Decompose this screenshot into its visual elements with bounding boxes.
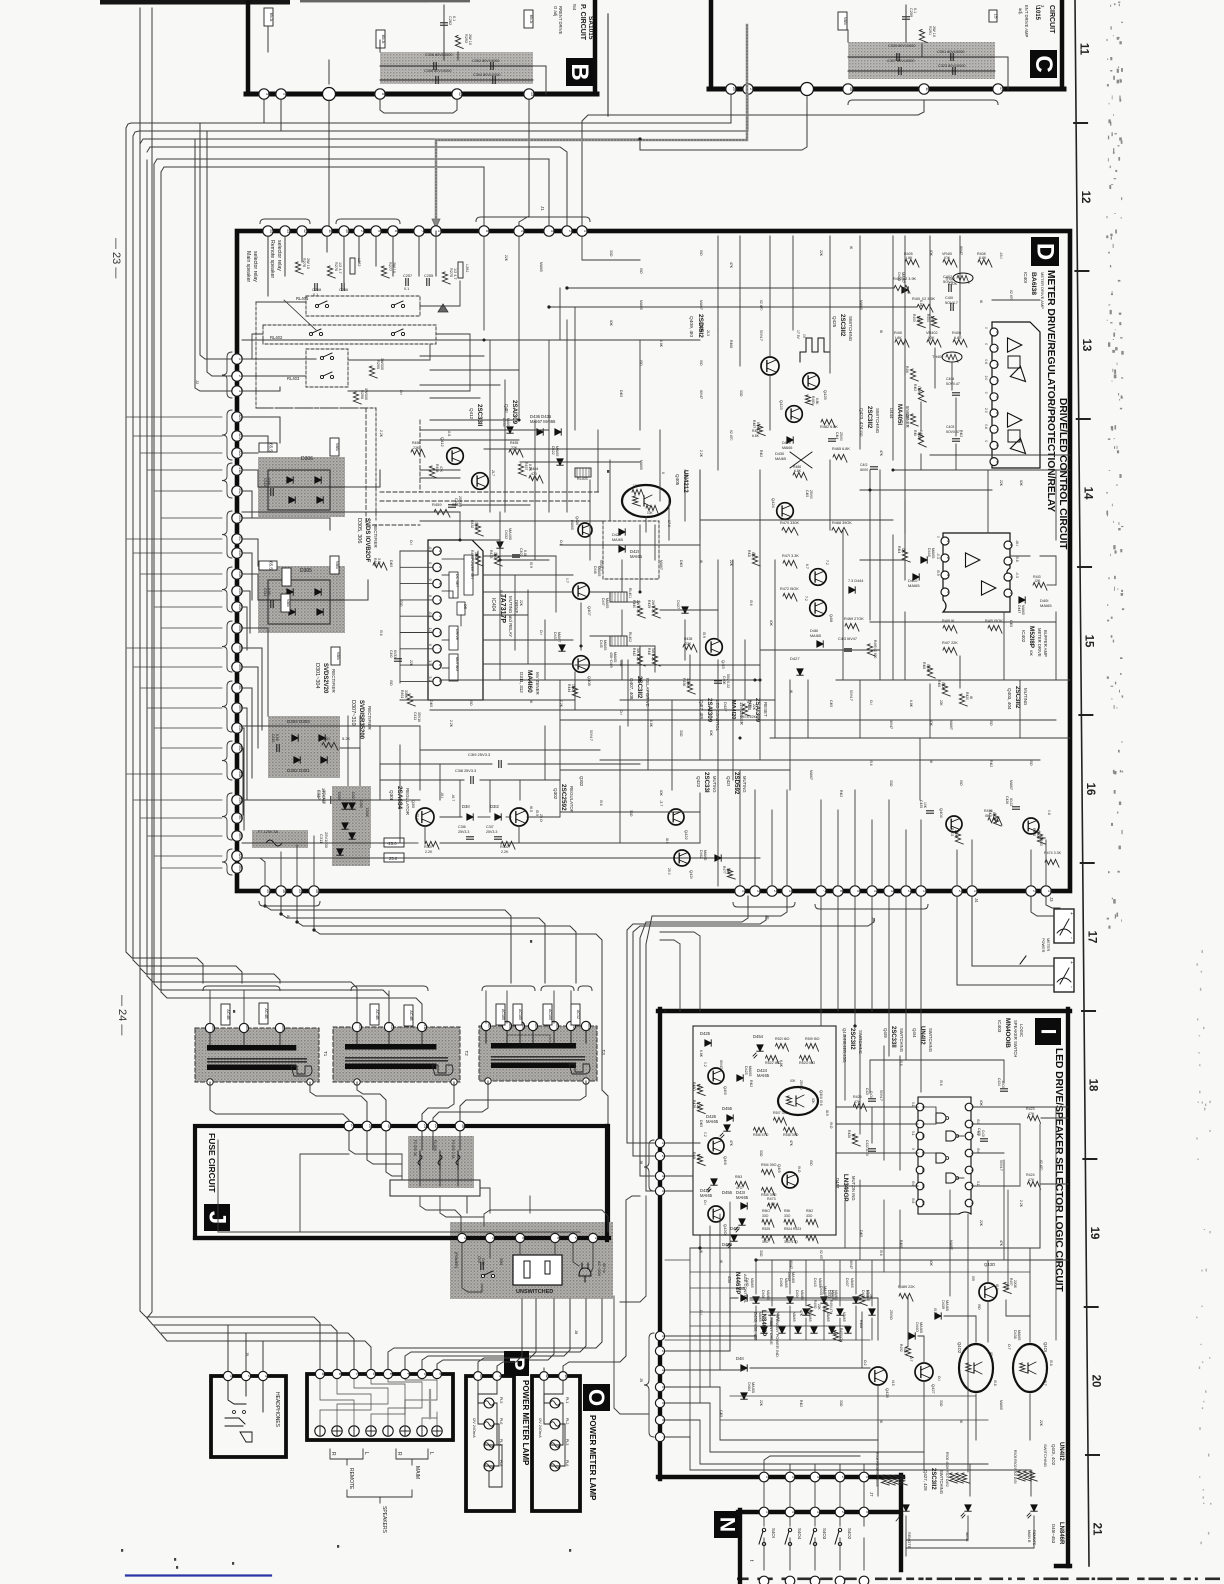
svg-text:I5.9: I5.9 bbox=[535, 810, 539, 816]
svg-text:33O: 33O bbox=[839, 1400, 843, 1407]
svg-text:D4I5: D4I5 bbox=[429, 700, 433, 707]
svg-text:MAI65: MAI65 bbox=[639, 460, 643, 470]
svg-text:316: 316 bbox=[238, 604, 242, 610]
svg-text:25.0: 25.0 bbox=[667, 868, 671, 875]
svg-text:2: 2 bbox=[841, 1476, 845, 1478]
svg-text:MAI65: MAI65 bbox=[757, 1073, 770, 1078]
svg-text:65.5: 65.5 bbox=[269, 443, 274, 452]
svg-text:C425: C425 bbox=[919, 800, 923, 808]
wires AC boxes to pins bbox=[209, 991, 211, 1023]
svg-text:1.0: 1.0 bbox=[428, 628, 432, 633]
svg-text:C404: C404 bbox=[946, 377, 954, 381]
svg-text:R295: R295 bbox=[376, 360, 380, 369]
svg-text:LN846R: LN846R bbox=[1058, 1522, 1064, 1545]
svg-text:33O: 33O bbox=[762, 1214, 769, 1218]
svg-text:L: L bbox=[428, 1452, 434, 1455]
svg-text:1: 1 bbox=[437, 230, 441, 232]
resistor R401 3.5K bbox=[917, 304, 933, 312]
bracket remote bbox=[330, 1449, 363, 1459]
svg-text:16: 16 bbox=[1084, 783, 1096, 796]
svg-text:R5IO: R5IO bbox=[762, 1209, 770, 1213]
svg-text:2W 10: 2W 10 bbox=[932, 26, 936, 37]
svg-text:7: 7 bbox=[822, 890, 826, 892]
svg-text:I9.O: I9.O bbox=[829, 1122, 833, 1129]
wires headphone pins up to bus bbox=[227, 1325, 229, 1371]
svg-text:IOK: IOK bbox=[1029, 650, 1033, 657]
svg-text:47K: 47K bbox=[879, 450, 883, 457]
svg-text:TH40I: TH40I bbox=[945, 277, 955, 281]
svg-text:I5.8: I5.8 bbox=[993, 1380, 997, 1386]
svg-text:14: 14 bbox=[921, 1201, 925, 1205]
resistor R481 47K bbox=[697, 1155, 705, 1166]
resistor R419 1K bbox=[943, 625, 957, 633]
fuse block label box J bbox=[204, 1204, 230, 1231]
svg-text:C282: C282 bbox=[448, 16, 452, 25]
svg-text:R4I6: R4I6 bbox=[937, 680, 941, 687]
svg-text:5: 5 bbox=[856, 890, 860, 892]
transistor Q424 bbox=[777, 503, 794, 520]
capacitor C423 0.01 bbox=[981, 1138, 988, 1140]
wire D pin to meter2 bbox=[957, 896, 1054, 985]
svg-text:0.68: 0.68 bbox=[275, 734, 279, 741]
wire B pin drop long bbox=[328, 100, 330, 228]
svg-text:Remote speaker: Remote speaker bbox=[269, 240, 275, 278]
svg-text:D304 D303: D304 D303 bbox=[287, 719, 310, 724]
svg-text:R404: R404 bbox=[926, 314, 930, 322]
svg-text:1/2 4.7: 1/2 4.7 bbox=[338, 262, 342, 274]
wires D bottomA to transformers bbox=[265, 896, 511, 963]
svg-text:13: 13 bbox=[530, 92, 534, 96]
svg-text:3: 3 bbox=[816, 1476, 820, 1478]
svg-text:317: 317 bbox=[238, 536, 242, 542]
svg-text:I8.9: I8.9 bbox=[825, 1110, 829, 1116]
svg-text:0.1: 0.1 bbox=[452, 16, 456, 21]
wire mesh D bottom-left verticals bbox=[379, 726, 381, 800]
svg-text:3: 3 bbox=[438, 583, 442, 585]
svg-text:T2: T2 bbox=[464, 1051, 469, 1057]
svg-text:R40I: R40I bbox=[912, 297, 920, 301]
svg-text:D4IO: D4IO bbox=[745, 1278, 749, 1287]
svg-text:1: 1 bbox=[661, 1142, 665, 1144]
svg-text:S4O2: S4O2 bbox=[847, 1528, 852, 1540]
svg-text:1: 1 bbox=[765, 1476, 769, 1478]
svg-text:47K: 47K bbox=[1028, 1112, 1035, 1116]
plug symbol bbox=[579, 1263, 591, 1282]
svg-text:I/2 470: I/2 470 bbox=[759, 300, 763, 310]
svg-text:I: I bbox=[1037, 1029, 1060, 1035]
svg-text:SWITCHING: SWITCHING bbox=[1043, 1444, 1048, 1467]
svg-text:1: 1 bbox=[438, 550, 442, 552]
svg-text:2: 2 bbox=[749, 88, 753, 90]
svg-text:REGULATOR: REGULATOR bbox=[569, 786, 574, 813]
diode D429 MA165 bbox=[787, 437, 793, 443]
svg-text:D46I: D46I bbox=[810, 629, 818, 633]
svg-text:D308: D308 bbox=[365, 808, 369, 817]
svg-text:I2K: I2K bbox=[901, 548, 905, 554]
svg-text:10: 10 bbox=[345, 229, 349, 233]
svg-text:D442: D442 bbox=[787, 1272, 791, 1281]
block D bottom pins group D bbox=[952, 886, 962, 896]
grey top center bar wider bbox=[300, 0, 470, 2]
svg-text:MUTING: MUTING bbox=[455, 657, 459, 671]
svg-text:25VI0: 25VI0 bbox=[839, 432, 843, 441]
svg-text:RL403: RL403 bbox=[287, 376, 300, 381]
fuses F1 F2 F3 bbox=[419, 1151, 421, 1169]
svg-text:2W 2.7K: 2W 2.7K bbox=[651, 600, 655, 614]
capacitor C401 50V4.7 bbox=[950, 304, 952, 311]
relay area dashed boundary bbox=[256, 302, 376, 408]
svg-text:D437: D437 bbox=[553, 632, 557, 641]
svg-text:21: 21 bbox=[1091, 1523, 1103, 1536]
svg-text:1: 1 bbox=[661, 1335, 665, 1337]
svg-text:!54: !54 bbox=[572, 4, 577, 11]
resistor R424 47K bbox=[1028, 1181, 1041, 1189]
LED D457 bbox=[739, 1219, 745, 1225]
svg-text:R426: R426 bbox=[847, 1130, 851, 1138]
svg-text:5: 5 bbox=[865, 1476, 869, 1478]
svg-text:IOOK: IOOK bbox=[992, 812, 996, 821]
svg-text:3.1: 3.1 bbox=[428, 676, 432, 681]
svg-text:I6V47: I6V47 bbox=[699, 390, 703, 399]
switch S404 bbox=[788, 1528, 791, 1531]
transformer T3 inner taps bbox=[485, 1031, 487, 1043]
svg-text:2: 2 bbox=[238, 375, 242, 377]
wires outlet area down bbox=[521, 1299, 523, 1310]
svg-text:Q428: Q428 bbox=[885, 1388, 890, 1399]
svg-text:D: D bbox=[372, 1373, 376, 1376]
svg-text:R472 I5OK: R472 I5OK bbox=[780, 587, 799, 591]
svg-text:O: O bbox=[584, 1389, 609, 1406]
svg-text:47K: 47K bbox=[729, 1140, 733, 1147]
svg-text:6.8K: 6.8K bbox=[979, 256, 987, 260]
wires transformer bottoms to fuse bbox=[210, 1082, 349, 1126]
IC402 opamps bbox=[966, 553, 980, 567]
svg-text:2: 2 bbox=[360, 230, 364, 232]
svg-text:MAI65: MAI65 bbox=[750, 1278, 754, 1288]
wires relay area mesh bbox=[242, 358, 316, 360]
wires right part mesh bbox=[893, 469, 1070, 471]
svg-text:R275: R275 bbox=[449, 268, 453, 277]
svg-text:R423: R423 bbox=[1026, 1107, 1035, 1111]
svg-text:I4.5: I4.5 bbox=[891, 1380, 895, 1386]
svg-text:POWER SET: POWER SET bbox=[470, 558, 474, 580]
svg-text:R4I2: R4I2 bbox=[913, 384, 917, 391]
svg-text:C258: C258 bbox=[312, 288, 321, 292]
svg-text:8: 8 bbox=[438, 664, 442, 666]
speaker terminals bbox=[315, 1426, 325, 1436]
pointer line relay label bbox=[284, 300, 316, 330]
svg-text:308: 308 bbox=[508, 1023, 512, 1029]
svg-text:0: 0 bbox=[984, 440, 988, 442]
svg-text:IOK: IOK bbox=[903, 1348, 907, 1354]
left bus long verticals bbox=[139, 8, 141, 1310]
svg-text:307: 307 bbox=[487, 1023, 491, 1029]
block N label bbox=[714, 1511, 740, 1538]
svg-text:R5O9 45O8 R5O7 D452: R5O9 45O8 R5O7 D452 bbox=[945, 1452, 949, 1487]
svg-text:306: 306 bbox=[238, 664, 242, 670]
svg-text:2: 2 bbox=[1032, 890, 1036, 892]
svg-text:4: 4 bbox=[520, 230, 524, 232]
svg-text:Q4I5,4I6,42O,43O,: Q4I5,4I6,42O,43O, bbox=[842, 1028, 847, 1063]
svg-text:304: 304 bbox=[534, 1023, 538, 1029]
fuse F7 halftone bbox=[252, 830, 308, 848]
svg-text:D457: D457 bbox=[730, 1226, 741, 1231]
bracket speakers bbox=[347, 1490, 412, 1497]
svg-text:IOK: IOK bbox=[811, 1098, 815, 1104]
resistor R413 12K bbox=[1033, 582, 1047, 590]
svg-text:8: 8 bbox=[381, 93, 385, 95]
svg-text:S4OI: S4OI bbox=[771, 1528, 776, 1538]
svg-text:O.2: O.2 bbox=[863, 1360, 867, 1366]
resistor R291 bbox=[919, 30, 927, 43]
svg-text:4: 4 bbox=[995, 380, 999, 382]
svg-text:2: 2 bbox=[958, 890, 962, 892]
svg-text:9: 9 bbox=[995, 461, 999, 463]
svg-text:R496: R496 bbox=[865, 1290, 869, 1298]
svg-text:I59: I59 bbox=[971, 1276, 975, 1281]
boxed label 65.5 at D301-304 bbox=[281, 594, 290, 612]
resistor R461 330K bbox=[407, 694, 415, 706]
svg-text:R468: R468 bbox=[859, 1320, 863, 1328]
svg-text:10K: 10K bbox=[493, 552, 497, 559]
svg-text:SWITCHING: SWITCHING bbox=[939, 1470, 944, 1494]
thermistor TH401 100K bbox=[953, 273, 973, 283]
svg-text:9: 9 bbox=[438, 680, 442, 682]
svg-text:LED DRIVE/SPEAKER SELECTOR LOG: LED DRIVE/SPEAKER SELECTOR LOGIC CIRCUIT bbox=[1053, 1048, 1064, 1293]
svg-text:R5I4 39O: R5I4 39O bbox=[761, 1163, 777, 1167]
logic IC right pins bbox=[965, 1103, 973, 1111]
wire mesh I lower extra bbox=[720, 1419, 988, 1421]
transistor Q407 bbox=[573, 583, 590, 600]
svg-text:6: 6 bbox=[1009, 576, 1013, 578]
svg-text:R483: R483 bbox=[811, 396, 815, 404]
svg-text:PL2: PL2 bbox=[565, 1418, 569, 1424]
svg-text:311: 311 bbox=[238, 467, 242, 473]
svg-text:MUTING and RELAY: MUTING and RELAY bbox=[508, 596, 513, 637]
AC label boxes T3 bbox=[496, 1004, 505, 1025]
boxed label 65.5 at D306 bbox=[259, 443, 277, 452]
block I border bottom-right stub bbox=[1056, 1564, 1070, 1568]
svg-text:Q4I4: Q4I4 bbox=[819, 1090, 824, 1099]
svg-text:I5.6: I5.6 bbox=[911, 1198, 915, 1204]
wires between pin rows bbox=[763, 1482, 765, 1507]
svg-text:RL401: RL401 bbox=[296, 296, 309, 301]
wires relay area verticals bbox=[267, 236, 269, 296]
boxed label 65.5 right bbox=[524, 10, 533, 28]
svg-text:6V33: 6V33 bbox=[393, 650, 397, 658]
svg-text:+: + bbox=[1068, 961, 1074, 964]
svg-text:12: 12 bbox=[458, 92, 462, 96]
svg-text:MAI65: MAI65 bbox=[605, 598, 609, 608]
hatched wire speaker bbox=[429, 1390, 431, 1420]
diode D421 MA165 dashed box bbox=[603, 521, 659, 579]
svg-text:C4I2: C4I2 bbox=[860, 463, 867, 467]
svg-text:0: 0 bbox=[984, 343, 988, 345]
svg-text:Q412: Q412 bbox=[469, 408, 474, 420]
svg-text:11: 11 bbox=[328, 229, 332, 233]
svg-text:7: 7 bbox=[438, 648, 442, 650]
svg-text:RECTIFIER: RECTIFIER bbox=[331, 669, 336, 694]
transistor Q427 bbox=[915, 1363, 933, 1381]
svg-text:18: 18 bbox=[315, 889, 319, 893]
svg-text:33O: 33O bbox=[889, 780, 893, 787]
svg-text:12: 12 bbox=[303, 229, 307, 233]
transformer T2 pins top bbox=[352, 1022, 361, 1031]
svg-text:330K: 330K bbox=[404, 690, 408, 699]
svg-text:MUTING: MUTING bbox=[742, 776, 747, 793]
logic IC left pins bbox=[916, 1103, 924, 1111]
svg-text:D429: D429 bbox=[782, 441, 791, 445]
block I left pins group2 bbox=[655, 1331, 664, 1340]
resistor R417 22K bbox=[943, 647, 957, 655]
svg-text:I9.O: I9.O bbox=[797, 1166, 801, 1173]
svg-text:MN4OOIB: MN4OOIB bbox=[1004, 1018, 1011, 1048]
svg-text:D408: D408 bbox=[761, 1290, 765, 1299]
svg-text:I/2 3.5K: I/2 3.5K bbox=[922, 297, 936, 301]
svg-text:PL3: PL3 bbox=[565, 1439, 569, 1445]
svg-text:D456: D456 bbox=[722, 1190, 733, 1195]
svg-text:302: 302 bbox=[238, 745, 242, 751]
svg-text:33O: 33O bbox=[784, 1214, 791, 1218]
resistor R518 390 bbox=[784, 1127, 797, 1135]
svg-text:R302: R302 bbox=[500, 845, 509, 849]
wires crossing into I interior bbox=[820, 1011, 822, 1026]
svg-text:PL6: PL6 bbox=[499, 1418, 503, 1424]
svg-text:R5I6 47O: R5I6 47O bbox=[753, 1133, 769, 1137]
svg-text:Q408: Q408 bbox=[587, 676, 592, 687]
svg-text:25V3.3: 25V3.3 bbox=[486, 830, 497, 834]
svg-text:C4I4: C4I4 bbox=[835, 432, 839, 439]
svg-text:D305: D305 bbox=[300, 568, 312, 574]
resistor R477 10K bbox=[727, 869, 735, 879]
svg-text:I5OK: I5OK bbox=[941, 682, 945, 690]
scan speckle band right edge bbox=[1108, 304, 1110, 305]
svg-text:MAI65: MAI65 bbox=[776, 1312, 780, 1322]
svg-text:26: 26 bbox=[368, 1124, 372, 1128]
svg-text:25.0: 25.0 bbox=[389, 856, 398, 861]
wire mesh D right half horizontals dense bbox=[930, 454, 1070, 456]
diode D425 bbox=[705, 1040, 711, 1046]
svg-text:MUT.ON IND.: MUT.ON IND. bbox=[851, 1176, 856, 1202]
svg-text:R4I0: R4I0 bbox=[894, 331, 902, 335]
svg-text:R454: R454 bbox=[530, 467, 538, 471]
svg-text:LN346GP: LN346GP bbox=[842, 1174, 849, 1202]
svg-text:D4I5: D4I5 bbox=[859, 1230, 863, 1237]
svg-text:7: 7 bbox=[661, 1436, 665, 1438]
svg-text:R5II: R5II bbox=[784, 1209, 790, 1213]
LED D452 bbox=[965, 1505, 971, 1511]
svg-text:AC~I20V: AC~I20V bbox=[597, 1261, 601, 1277]
svg-text:Main speaker: Main speaker bbox=[245, 251, 251, 282]
svg-text:D4I5: D4I5 bbox=[679, 560, 683, 567]
svg-text:N: N bbox=[716, 1517, 739, 1532]
svg-text:R487: R487 bbox=[752, 429, 760, 433]
IC404 internal box DC SET bbox=[449, 572, 458, 598]
svg-text:13: 13 bbox=[298, 889, 302, 893]
capacitor C421 0.01 bbox=[869, 1098, 876, 1100]
svg-text:0.1: 0.1 bbox=[976, 1181, 980, 1186]
svg-text:IOK: IOK bbox=[929, 720, 933, 727]
svg-text:2: 2 bbox=[661, 1350, 665, 1352]
svg-text:301: 301 bbox=[587, 1023, 591, 1029]
svg-text:R493 IOK: R493 IOK bbox=[839, 1328, 843, 1343]
svg-text:0.68: 0.68 bbox=[267, 588, 271, 595]
svg-text:UN4II2: UN4II2 bbox=[919, 1026, 925, 1045]
diode matrix row2 bbox=[761, 1327, 767, 1333]
svg-text:SWITCHING: SWITCHING bbox=[875, 408, 880, 434]
grey strip D307-310 column2 bbox=[332, 786, 370, 866]
resistor R296 3W330 bbox=[353, 392, 361, 404]
svg-text:Q4I6: Q4I6 bbox=[723, 1156, 728, 1165]
relay RL402 contacts bbox=[309, 332, 312, 335]
wires into P O blocks bbox=[478, 1310, 536, 1371]
svg-text:D4I5: D4I5 bbox=[389, 560, 393, 567]
IC404 internal wires bbox=[442, 558, 464, 560]
svg-text:AC12: AC12 bbox=[576, 1010, 580, 1019]
resistor R513 470 bbox=[736, 1181, 749, 1189]
svg-text:MAI65: MAI65 bbox=[758, 1312, 762, 1322]
LED D454 bbox=[757, 1045, 763, 1051]
svg-text:2SC2592: 2SC2592 bbox=[560, 784, 567, 811]
resistor R426 47K bbox=[852, 1134, 860, 1146]
svg-text:1: 1 bbox=[973, 890, 977, 892]
svg-text:MAI67: MAI67 bbox=[809, 770, 813, 780]
svg-text:T1: T1 bbox=[323, 1051, 328, 1057]
rectifier D305 halftone block bbox=[258, 566, 345, 633]
svg-text:22K: 22K bbox=[409, 660, 413, 667]
capacitor C424 0.01 bbox=[1001, 1088, 1008, 1090]
svg-text:R459: R459 bbox=[432, 502, 442, 507]
svg-text:R525: R525 bbox=[762, 1227, 770, 1231]
svg-text:39O 47O: 39O 47O bbox=[784, 1240, 798, 1244]
svg-text:6: 6 bbox=[970, 1123, 974, 1125]
outlet strip halftone bbox=[450, 1222, 613, 1299]
resistor R415 150K bbox=[988, 625, 1002, 633]
svg-text:F3 I25V 2.5A: F3 I25V 2.5A bbox=[451, 1140, 455, 1159]
svg-text:65.5: 65.5 bbox=[269, 13, 274, 22]
IC404 internal box DRIVE bbox=[449, 626, 458, 650]
logic IC MN4001B outline bbox=[918, 1097, 971, 1214]
transformer T2 pins bottom bbox=[354, 1079, 360, 1085]
svg-text:IOK: IOK bbox=[790, 1079, 796, 1083]
svg-text:3W 1.2K: 3W 1.2K bbox=[636, 648, 640, 662]
svg-text:R458: R458 bbox=[435, 464, 439, 472]
svg-text:D458: D458 bbox=[722, 1242, 733, 1247]
transistor Q420 circle bbox=[578, 523, 592, 537]
svg-text:MAI65: MAI65 bbox=[931, 548, 935, 558]
wires from IC404 pins left bbox=[400, 550, 432, 552]
svg-text:S4O4: S4O4 bbox=[797, 1528, 802, 1540]
svg-text:Q422: Q422 bbox=[684, 830, 689, 841]
svg-text:2: 2 bbox=[661, 1155, 665, 1157]
svg-text:Q42O: Q42O bbox=[723, 1224, 728, 1235]
wires D bottom right bbox=[739, 770, 741, 886]
wire mesh I mid verticals bbox=[689, 1248, 691, 1437]
svg-text:2: 2 bbox=[568, 230, 572, 232]
resistor R521 160 bbox=[776, 1043, 789, 1051]
svg-text:METER DRIVE: METER DRIVE bbox=[1037, 628, 1042, 657]
svg-text:C423: C423 bbox=[977, 1128, 981, 1136]
diode D402 MA165 bbox=[913, 574, 919, 580]
svg-text:Q407: Q407 bbox=[587, 606, 592, 617]
block D bottom pins group A bbox=[260, 886, 270, 896]
svg-text:POWER METER LAMP: POWER METER LAMP bbox=[521, 1380, 530, 1466]
block O lamps bbox=[550, 1398, 560, 1408]
block D bottom pins group C bbox=[816, 886, 826, 896]
svg-text:MAI65: MAI65 bbox=[539, 262, 543, 272]
wire bus top y147 bbox=[147, 147, 567, 228]
svg-text:4: 4 bbox=[970, 1152, 974, 1154]
